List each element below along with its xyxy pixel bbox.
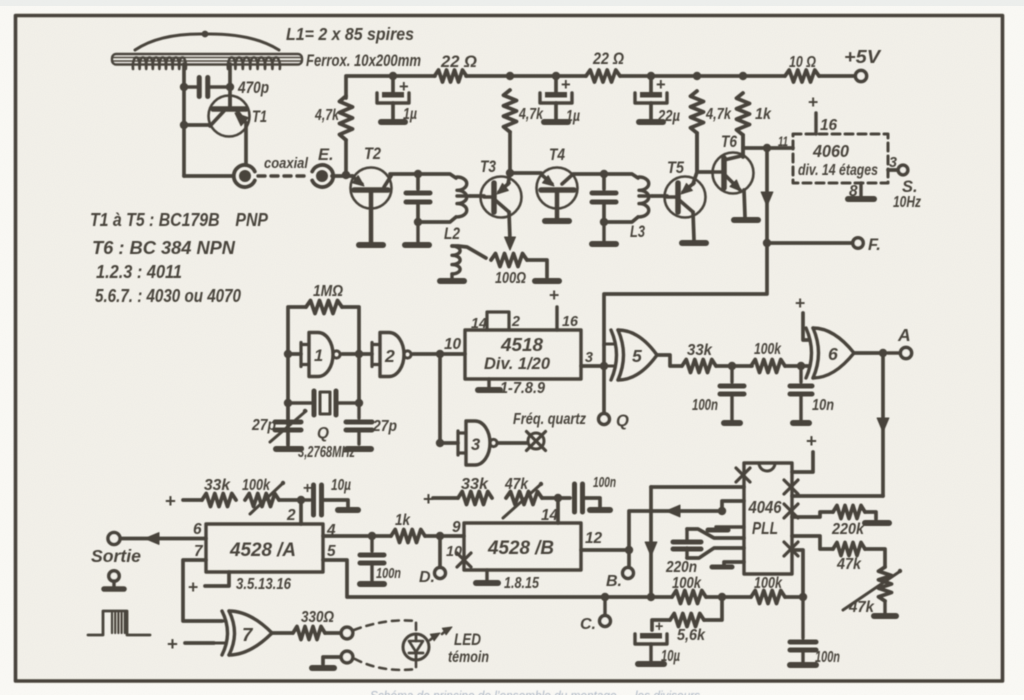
label 100R	[495, 270, 526, 287]
node left-cap junction	[180, 83, 188, 91]
wire xor6 out	[854, 351, 883, 355]
resistor 220k	[833, 506, 865, 519]
wire PLL to A line	[792, 494, 883, 498]
label L2	[444, 225, 460, 243]
wire xor5 vert	[602, 345, 606, 414]
ground 10u PLL	[638, 661, 664, 667]
wire F link	[767, 241, 852, 245]
IC 4528/B box	[464, 523, 581, 570]
node left-emitter junction	[180, 121, 188, 129]
label T2	[364, 145, 381, 163]
label 47k PLL	[836, 556, 862, 573]
wire 220k gnd	[865, 512, 889, 523]
crystal Q1	[288, 391, 359, 415]
label 33k	[687, 342, 713, 359]
pin cross right2	[784, 504, 798, 518]
coax plug J1	[234, 165, 255, 187]
label L3	[630, 223, 645, 241]
gate 2 NAND	[372, 333, 411, 377]
label gate1	[314, 347, 323, 365]
capacitor 100n filt	[720, 366, 744, 420]
L1 winding left	[133, 57, 186, 69]
label 10n	[812, 397, 834, 414]
label 4046	[748, 498, 782, 517]
wire pin to rail	[792, 550, 803, 598]
wire plus 33k B	[423, 488, 458, 509]
potentiometer 47k B	[503, 482, 543, 518]
wire tank1 top to L2	[418, 174, 456, 178]
wire 33k to 100k	[716, 364, 752, 368]
label 4528/B	[487, 538, 554, 559]
capacitor 10n	[790, 366, 812, 420]
label gate5	[632, 346, 642, 366]
capacitor 27p right	[346, 403, 372, 444]
label div 14 etages	[798, 162, 878, 179]
LED arrows	[430, 624, 454, 641]
resistor 33k A	[202, 494, 236, 507]
wire T3node to T4	[510, 171, 541, 175]
label T1	[252, 108, 267, 126]
wire T4 to tank2	[573, 172, 604, 176]
wire bottom rail	[605, 595, 803, 599]
wire PLL r3	[792, 536, 833, 549]
arrow onto 100R	[505, 237, 516, 250]
resistor 1M	[306, 301, 342, 314]
resistor 4,7k second	[504, 90, 517, 132]
resistor 33k	[682, 360, 716, 373]
terminal +5V	[855, 70, 866, 81]
label pin 16 4518	[562, 314, 579, 330]
node L1 centre tap	[202, 31, 209, 38]
wire pin4 out	[323, 534, 391, 538]
capacitor 100n A	[360, 536, 384, 581]
label L1 value	[286, 24, 414, 44]
wire 1k down to T6	[741, 135, 745, 155]
label 10R	[789, 54, 816, 71]
node pin2 A	[297, 496, 305, 504]
label gate2	[384, 346, 395, 366]
resistor 47k PLL	[833, 543, 865, 556]
potentiometer 100k A	[245, 481, 285, 514]
PLL supply	[792, 430, 817, 472]
wire 1k to pin9	[425, 534, 464, 538]
label 4,7k first	[314, 107, 340, 124]
wire 100R right to ground	[527, 260, 547, 277]
node T6 output	[763, 144, 771, 152]
ground 100n B	[590, 507, 610, 513]
LED D1	[403, 634, 429, 660]
label pin 14 B	[541, 507, 559, 524]
wire gate3 out	[499, 441, 527, 445]
node rail C	[601, 593, 609, 601]
pin 16 stub 4518	[549, 285, 559, 330]
IC 4046 box	[744, 463, 792, 574]
ground tank2	[592, 222, 616, 244]
node T3 top	[506, 169, 514, 177]
capacitor 100n PLL	[790, 597, 816, 662]
capacitor 1u second	[540, 76, 572, 119]
wire 47k to 100n B	[542, 496, 570, 500]
ground 1u second	[544, 119, 568, 125]
wire 4,7k1 bottom to E node	[344, 140, 348, 176]
wire gate1 to gate2	[342, 352, 372, 356]
resistor 10R	[785, 70, 819, 82]
wire tank2 bottom link	[604, 217, 638, 222]
node rail 4,7k2	[506, 72, 514, 80]
label C.	[580, 616, 596, 633]
ground 47k pot	[874, 601, 896, 616]
label S. 10Hz	[893, 178, 921, 211]
node rail right	[799, 593, 807, 601]
label 1u first	[403, 106, 417, 123]
node pin14	[554, 494, 562, 502]
pin 8 stub	[859, 183, 862, 197]
label 100k rail1	[672, 575, 702, 592]
terminal B	[623, 568, 634, 579]
wire T5top to T6 base	[697, 133, 713, 172]
label coaxial	[264, 156, 309, 172]
label 22u	[657, 108, 680, 125]
ground 10u A	[338, 507, 358, 513]
label 27p right	[372, 418, 397, 435]
node xor5 in	[600, 362, 608, 370]
wire 4,7k2 to T3 node	[508, 132, 512, 173]
potentiometer 100R	[491, 254, 527, 267]
wire xor5 out	[657, 355, 681, 366]
wire pin3 to xor5	[581, 364, 604, 368]
wire xor7 out	[272, 631, 292, 635]
ground 100n A	[360, 581, 384, 587]
label 4060	[812, 141, 849, 161]
label 33k A	[204, 477, 231, 494]
pin10 cross	[457, 553, 471, 567]
wire pin12 up route	[629, 505, 722, 550]
label 1M	[313, 283, 343, 300]
resistor 100k filt	[751, 360, 785, 373]
ground 4518	[478, 379, 500, 390]
resistor 1k A	[391, 530, 425, 543]
label 100n B	[593, 475, 616, 491]
node cap-collector junction	[226, 83, 234, 91]
wire 47k to pot	[865, 549, 885, 567]
wire tank1 bottom link	[418, 217, 456, 222]
label gate6	[828, 344, 838, 364]
node T2 base	[342, 171, 350, 179]
label 47k B	[504, 476, 529, 493]
capacitor 100n B	[575, 484, 601, 512]
ground 100n PLL	[790, 662, 816, 668]
ground T4	[545, 218, 569, 224]
label 1k	[755, 106, 772, 123]
label 470p	[237, 79, 269, 97]
wire T3 collector down	[509, 212, 510, 240]
node rail mid	[718, 593, 726, 601]
label 47k pot	[848, 599, 875, 616]
ground 10n	[793, 420, 809, 426]
label T5	[667, 159, 685, 177]
wire 4,7k3 down	[695, 133, 699, 172]
label 100k filt	[754, 341, 782, 358]
label pin 2	[511, 314, 520, 330]
wire 100k to xor6	[785, 364, 809, 368]
label 3.5.13.16	[236, 576, 291, 593]
pin 16 stub	[808, 92, 818, 134]
wire xor6 plus input	[795, 293, 809, 340]
wire B stub	[627, 550, 631, 567]
node rail 22u	[647, 72, 655, 80]
label LED temoin	[448, 631, 489, 666]
wire pin6 to sortie	[121, 533, 206, 545]
label div 1/20	[484, 355, 551, 373]
capacitor 470p	[184, 78, 230, 97]
label 4528/A	[229, 540, 296, 561]
label pin 14	[471, 316, 487, 332]
label ferrox	[306, 52, 421, 70]
pin cross right3	[784, 542, 798, 556]
label Q crystal	[317, 425, 329, 442]
resistor 5,6k	[652, 597, 722, 630]
label 10u A	[331, 477, 351, 494]
label gate3	[471, 436, 480, 454]
wire 330R to LED terminal	[325, 631, 341, 635]
ground T5	[682, 240, 706, 246]
label T6	[721, 133, 738, 151]
label pin 4	[326, 522, 336, 539]
transistor T4	[537, 168, 578, 219]
label 1-7.8.9	[500, 380, 545, 397]
wire gate2 out	[413, 352, 441, 356]
IC 4518 box	[465, 330, 581, 379]
wire to node2	[279, 498, 301, 502]
wire L1 right inner end down	[228, 64, 232, 88]
node tank2 top	[600, 170, 608, 178]
ground pin 8	[848, 196, 874, 202]
terminal Q	[599, 414, 610, 425]
wire L2 to T3 base	[470, 194, 484, 198]
resistor 330R	[293, 627, 325, 640]
node F junction	[763, 239, 771, 247]
dashed LED loop bottom	[355, 659, 416, 670]
wire pin10 down to gate3	[438, 354, 442, 443]
label 5,6k	[677, 627, 706, 644]
node filt2	[797, 362, 805, 370]
label pin 9	[452, 519, 461, 536]
label 4,7k third	[705, 106, 732, 123]
node rail 1u first	[389, 72, 397, 80]
wire PLL signal in	[651, 485, 744, 489]
square wave symbol	[88, 611, 150, 635]
pin stub bottom	[712, 562, 744, 567]
label freq quartz	[513, 411, 586, 428]
ground tank1	[405, 222, 429, 245]
wire T6 collector down	[744, 190, 745, 217]
ground 100R	[535, 278, 559, 284]
wire pin10 to 4518	[440, 352, 465, 356]
transistor T2	[351, 168, 392, 244]
label crystal freq	[298, 444, 355, 461]
wire plus 33k A	[165, 490, 202, 511]
node rail 1k	[739, 72, 747, 80]
pin stub inhibit	[708, 527, 744, 530]
inductor L2 coupling winding	[452, 246, 486, 274]
pin cross left top	[736, 468, 750, 482]
label 27p left	[251, 417, 276, 434]
label Q	[616, 412, 629, 430]
dashed LED loop top	[354, 620, 416, 634]
capacitor 22u	[635, 76, 667, 119]
wire left branch vertical	[182, 87, 186, 176]
ground L2b	[440, 274, 464, 281]
pins 14-2 strap	[487, 312, 509, 330]
gate 7 XOR	[214, 611, 272, 655]
resistor 22R first	[435, 70, 467, 82]
ground T6	[734, 217, 758, 223]
node PLL compin	[718, 507, 726, 515]
node tank2 bottom	[600, 218, 608, 226]
wire T6 out to 4060	[743, 146, 793, 150]
wire T2 to tank1	[390, 172, 418, 176]
IC 4528/A box	[206, 524, 323, 572]
transistor T5	[665, 177, 706, 218]
wire T1 down to coax	[244, 124, 248, 163]
gate 5 XOR	[606, 330, 657, 380]
node tank1 top	[414, 170, 422, 178]
node xtal right	[355, 399, 363, 407]
label 1u second	[566, 108, 580, 125]
pin cross right1	[784, 480, 798, 494]
wire T1 left to branch	[184, 123, 211, 127]
terminal D	[435, 568, 446, 579]
wire bottom left link	[184, 174, 232, 178]
wire T5 emitter up	[693, 172, 697, 184]
label 330R	[301, 609, 334, 626]
label PLL	[752, 519, 778, 538]
wire 4528A reset plus	[188, 572, 229, 597]
socket E	[312, 165, 333, 187]
ground 1u first	[381, 119, 405, 125]
wire +5V rail	[346, 76, 854, 98]
wire xor7 plus input	[167, 633, 214, 654]
label gate7	[242, 624, 254, 645]
capacitor tank1	[406, 174, 430, 222]
inductor L3	[639, 177, 652, 217]
wire T5 collector down	[693, 212, 694, 240]
potentiometer 47k	[843, 567, 902, 610]
resistor 4,7k first	[340, 96, 353, 140]
wire coax dashed link	[258, 174, 310, 177]
label 22R first	[440, 53, 477, 71]
label B.	[606, 573, 622, 590]
capacitor 10u PLL	[635, 619, 667, 661]
label 100k rail2	[754, 575, 783, 592]
wire compin up	[722, 501, 744, 511]
node gate1 in	[284, 350, 292, 358]
label 220k	[831, 521, 865, 538]
node rail 4,7k3	[693, 72, 701, 80]
wire pin12 out	[581, 548, 629, 552]
ground T2	[359, 242, 383, 248]
label pin 7	[194, 543, 204, 560]
capacitor 220n PLL	[673, 529, 744, 558]
terminal Sortie	[108, 533, 120, 545]
gate 1 NAND	[301, 333, 340, 377]
label pin 2 A	[286, 507, 296, 524]
node pin4 filt	[368, 532, 376, 540]
label pin 16	[820, 117, 838, 134]
wire osc right vertical	[342, 307, 359, 403]
label +5V	[844, 46, 882, 67]
node rail 1u second	[552, 72, 560, 80]
wire tank2 top to L3	[604, 174, 638, 178]
IC 4060 box	[793, 134, 888, 183]
label pin 8	[849, 183, 858, 200]
wire E to T2	[332, 174, 353, 178]
transistor T6	[713, 153, 754, 195]
capacitor 10u A	[301, 480, 348, 515]
capacitor 1u first	[377, 76, 409, 120]
wire pin7 to xor7	[183, 560, 222, 621]
svg-text:Schéma de principe de l’ensemb: Schéma de principe de l’ensemble du mont…	[370, 689, 701, 695]
wire L3 to T5 base	[652, 194, 667, 198]
node pin10	[436, 350, 444, 358]
wire A down to PLL	[877, 353, 889, 496]
wire down to F	[761, 148, 773, 243]
label T3	[480, 158, 496, 176]
pin 3 wire	[888, 168, 897, 172]
label pin 12	[585, 530, 603, 547]
label 33k B	[461, 476, 490, 493]
resistor 4,7k third	[691, 91, 704, 133]
wire PLL r2	[792, 512, 833, 517]
wire gate3 feed	[440, 441, 458, 445]
wire node to D	[438, 536, 442, 567]
wire 1k to pin11 wire	[741, 135, 745, 157]
label pin 11	[778, 134, 788, 149]
wire T3 emitter up	[508, 173, 510, 184]
resistor 100k rail2	[751, 591, 785, 604]
ferrite rod antenna L1	[112, 54, 302, 65]
terminal S	[898, 165, 908, 175]
terminal A	[888, 347, 912, 358]
node gate3 feed	[436, 439, 444, 447]
node pin12	[625, 546, 633, 554]
label 10u PLL	[661, 648, 680, 665]
capacitor tank2	[592, 174, 616, 222]
label 1k A	[395, 512, 411, 529]
label 100k A	[242, 477, 271, 494]
gate 3 NAND	[458, 421, 497, 465]
label 4,7k second	[518, 106, 544, 123]
label D.	[419, 569, 435, 586]
wire PLL comp to rail	[645, 487, 657, 598]
label pin 3 4518	[585, 350, 593, 366]
wire pin14 down	[556, 498, 560, 523]
label pin 10	[444, 336, 462, 353]
inductor L2	[457, 177, 470, 217]
node pin9	[436, 532, 444, 540]
label transistor list	[90, 209, 268, 306]
node xtal left	[284, 399, 292, 407]
label F.	[868, 236, 881, 254]
ground 22u	[639, 119, 663, 125]
node rail left	[647, 593, 655, 601]
wire LED2 ground	[312, 657, 341, 668]
wire pin5 route	[323, 560, 605, 597]
label Sortie	[91, 547, 141, 566]
caption	[370, 689, 701, 700]
wire gate1 feed	[288, 352, 301, 356]
label A	[897, 325, 911, 345]
